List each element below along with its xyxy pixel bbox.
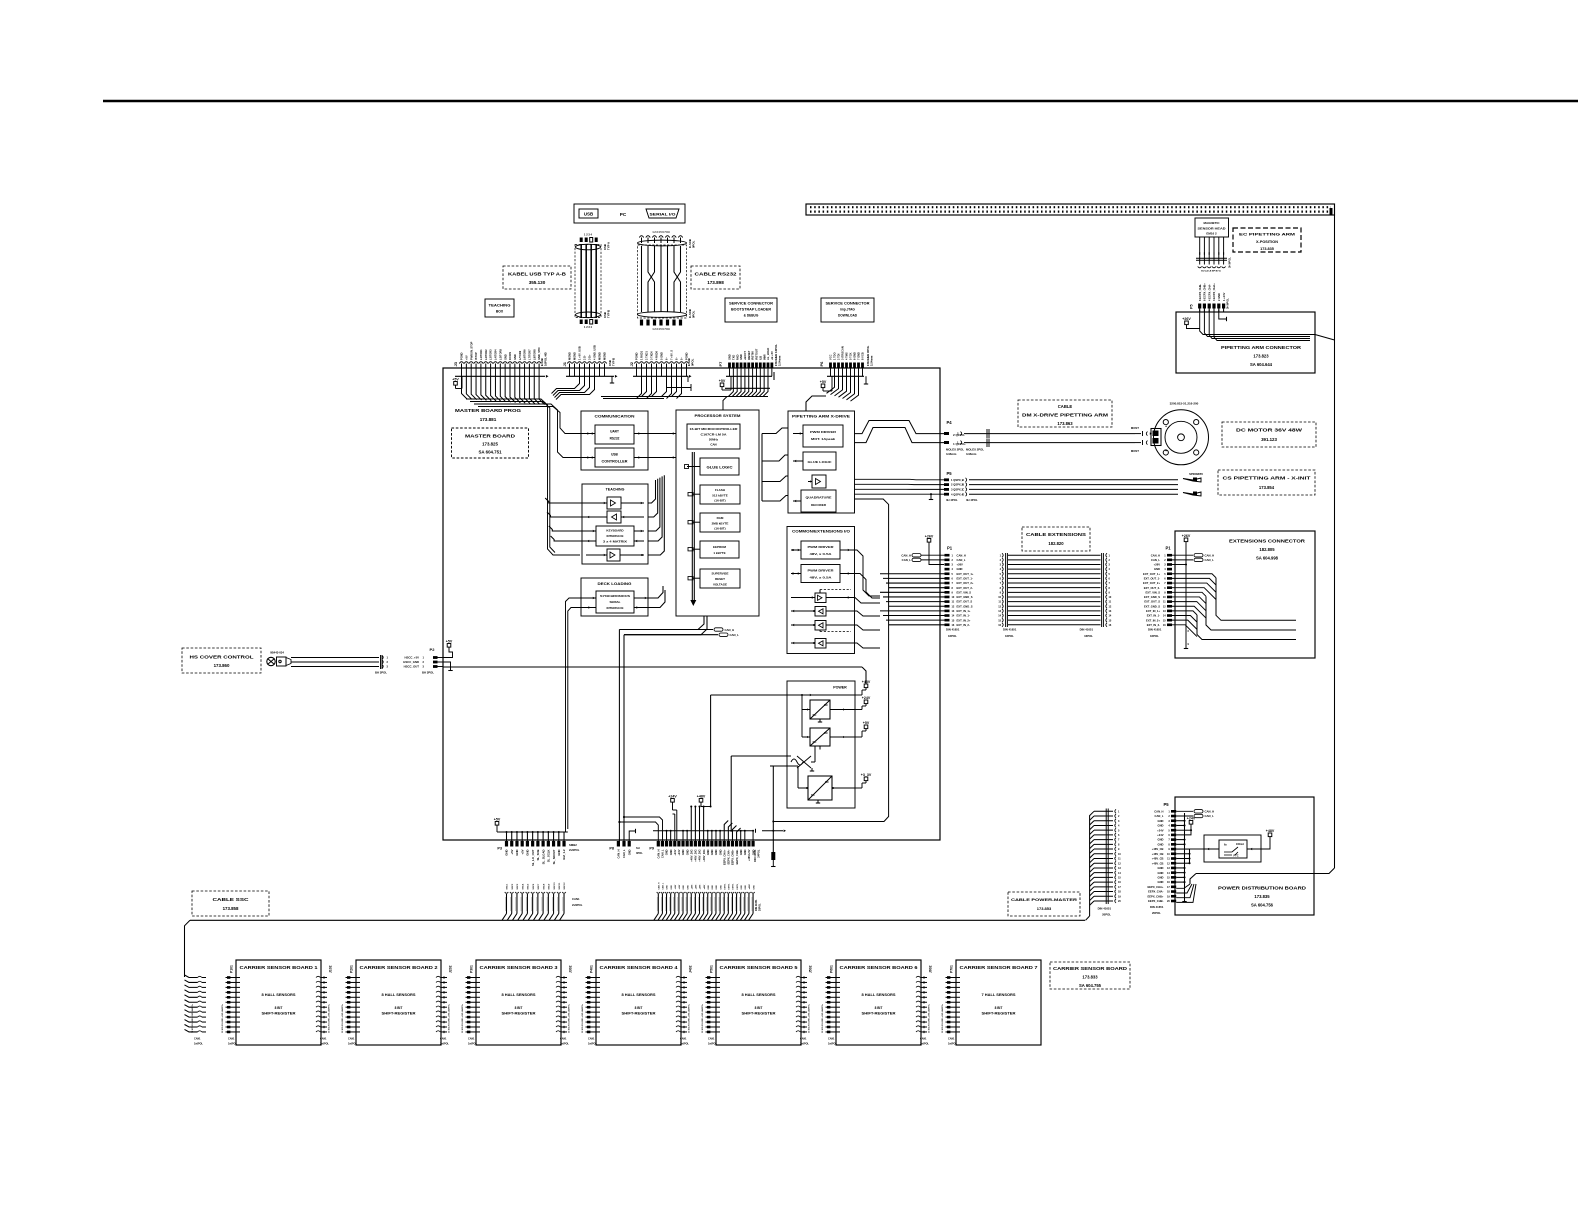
svg-text:3H 4POL: 3H 4POL [946, 498, 958, 502]
label CABLE DM X-DRIVE PIPETTING ARM 173.863 [1018, 400, 1112, 427]
svg-text:EEPX_CHA-: EEPX_CHA- [1148, 890, 1163, 894]
svg-text:P101: P101 [230, 965, 234, 973]
svg-text:CARRIER SENSOR BOARD 4: CARRIER SENSOR BOARD 4 [600, 965, 679, 970]
svg-text:7 +5V_S: 7 +5V_S [670, 350, 674, 360]
svg-text:2x6POL: 2x6POL [920, 1043, 929, 1046]
svg-text:GND: GND [1158, 871, 1164, 875]
block COMMON/EXTENSIONS I/O [787, 527, 855, 654]
teaching buffer 1 [607, 497, 621, 509]
svg-text:8 BIT: 8 BIT [995, 1006, 1003, 1010]
svg-text:+48V_CB: +48V_CB [1152, 857, 1164, 861]
svg-text:16POL-HD: 16POL-HD [544, 352, 548, 366]
svg-text:DOWNLOAD: DOWNLOAD [838, 314, 858, 318]
svg-text:GND: GND [706, 849, 710, 855]
svg-text:GND: GND [728, 354, 732, 360]
svg-text:BH 3POL: BH 3POL [422, 671, 434, 675]
svg-text:DECODER: DECODER [811, 503, 827, 507]
svg-text:EEPX_CHA+: EEPX_CHA+ [722, 849, 726, 865]
svg-text:SSC8: SSC8 [543, 883, 545, 889]
svg-text:2MB kBYTE: 2MB kBYTE [712, 522, 729, 526]
svg-text:DC: DC [824, 731, 828, 735]
svg-text:J402: J402 [689, 965, 693, 973]
svg-text:1 +24V: 1 +24V [1222, 292, 1226, 301]
wire extensions P1 pin3 to +26V [1172, 564, 1186, 566]
svg-text:100mA: 100mA [1236, 843, 1244, 846]
svg-text:EXT_VIN_S: EXT_VIN_S [1146, 590, 1161, 594]
power input wire top [770, 694, 802, 696]
svg-text:3H 6POL: 3H 6POL [1228, 257, 1232, 268]
ground at extensions P1 [1184, 648, 1188, 650]
svg-text:Ref_1.2: Ref_1.2 [562, 849, 566, 859]
wire HSCC bus inside board [443, 666, 862, 668]
cable power-master 20-core [1105, 809, 1107, 905]
svg-text:EEPX_: EEPX_ [733, 882, 735, 889]
stub CAN_L at extensions P1 [1172, 559, 1193, 561]
block TEACHING [582, 484, 648, 564]
svg-text:+5V: +5V [719, 379, 726, 383]
svg-text:CAN_L: CAN_L [902, 558, 912, 562]
svg-text:USB: USB [611, 453, 618, 457]
wire J3 bus [455, 375, 545, 377]
svg-text:CAN_H: CAN_H [657, 849, 661, 858]
ground at P8 [629, 831, 635, 841]
svg-text:12 SCLKO-GND-+5V2-LAMP2+: 12 SCLKO-GND-+5V2-LAMP2+ [701, 1003, 704, 1033]
svg-text:INTERFACE: INTERFACE [606, 606, 623, 610]
svg-text:173.858: 173.858 [223, 906, 239, 911]
svg-text:CAN_H: CAN_H [617, 849, 621, 858]
svg-text:SHIFT-REGISTER: SHIFT-REGISTER [982, 1012, 1017, 1016]
svg-text:GND: GND [1158, 838, 1164, 842]
label KABEL USB TYP A-B 355.130 [503, 266, 571, 289]
label HS COVER CONTROL 173.860 [182, 648, 261, 673]
svg-text:12 SCLKO-GND-+5V2-LAMP2+: 12 SCLKO-GND-+5V2-LAMP2+ [191, 1003, 194, 1033]
svg-text:2x6POL: 2x6POL [569, 848, 580, 852]
top border rule [103, 100, 1578, 103]
svg-text:2x6POL: 2x6POL [560, 1043, 569, 1046]
block COMMUNICATION [581, 411, 648, 470]
svg-text:RESET: RESET [715, 577, 725, 581]
svg-text:2 TDI: 2 TDI [837, 353, 841, 360]
svg-text:+24V: +24V [1157, 828, 1164, 832]
svg-text:VOLTAGE: VOLTAGE [713, 583, 727, 587]
svg-text:GND: GND [708, 885, 710, 890]
svg-text:DC MOTOR 36V 48W: DC MOTOR 36V 48W [1236, 428, 1303, 433]
svg-text:GND: GND [685, 849, 689, 855]
svg-text:12 SCLKO-GND-+5V2-LAMP2+: 12 SCLKO-GND-+5V2-LAMP2+ [221, 1003, 224, 1033]
cable RS232 bundle [638, 240, 687, 246]
svg-text:+48V_CB: +48V_CB [1152, 852, 1164, 856]
svg-text:2x6POL: 2x6POL [708, 1043, 717, 1046]
cable QSPX 4-core [966, 478, 967, 482]
svg-text:GND: GND [513, 354, 517, 360]
svg-text:1 2 3 4 5 6 7 8 9: 1 2 3 4 5 6 7 8 9 [652, 328, 670, 331]
label EC PIPETTING ARM X-POSITION 173.835 [1233, 228, 1301, 252]
svg-text:+26V: +26V [1182, 534, 1191, 538]
svg-text:EXT_IN_2-: EXT_IN_2- [957, 623, 970, 627]
svg-text:CAN1: CAN1 [194, 1038, 201, 1041]
svg-text:L/TOR9: L/TOR9 [518, 350, 522, 360]
svg-text:173.833: 173.833 [1082, 975, 1098, 980]
svg-text:SERIAL: SERIAL [609, 600, 620, 604]
block PWM DRIVER (x-drive) [803, 425, 843, 447]
svg-text:CABLE POWER-MASTER: CABLE POWER-MASTER [1011, 897, 1077, 902]
svg-text:3 TXD0: 3 TXD0 [650, 351, 654, 360]
wire J2 bus [633, 375, 688, 377]
svg-text:GND: GND [712, 885, 714, 890]
svg-text:EEPX_CHB+: EEPX_CHB+ [1147, 894, 1163, 898]
svg-text:GND: GND [505, 850, 509, 856]
svg-text:+26V: +26V [925, 534, 934, 538]
wires x-drive left elbows [762, 428, 788, 434]
svg-text:CAN1: CAN1 [800, 1038, 807, 1041]
svg-text:+48V_CB: +48V_CB [1152, 847, 1164, 851]
block PROCESSOR SYSTEM [676, 410, 759, 616]
master board outline [443, 368, 940, 840]
wire channel J3 to teaching [466, 399, 580, 555]
svg-text:2x6POL: 2x6POL [228, 1043, 237, 1046]
wire bundle P7 down [728, 376, 733, 396]
svg-text:GND: GND [667, 885, 669, 890]
ground at P5 x-init [930, 494, 932, 499]
svg-text:+26V: +26V [957, 563, 964, 567]
svg-text:RS232: RS232 [610, 437, 620, 441]
svg-text:GND: GND [710, 849, 714, 855]
svg-text:CAN1: CAN1 [228, 1038, 235, 1041]
svg-text:+48V_DIG: +48V_DIG [694, 850, 698, 862]
svg-text:SHIFT-REGISTER: SHIFT-REGISTER [382, 1012, 417, 1016]
svg-text:P401: P401 [590, 965, 594, 973]
fuse box PTC [1204, 835, 1261, 862]
svg-text:+48V_DIG: +48V_DIG [689, 850, 693, 862]
svg-text:SSC4: SSC4 [521, 883, 524, 889]
wire bundle J1 to communication [552, 376, 580, 393]
svg-text:EXT_IN_1+: EXT_IN_1+ [1146, 609, 1160, 613]
wire HS cover 3-core [291, 657, 379, 659]
svg-text:1 TDO: 1 TDO [833, 352, 837, 360]
wire P9 gnd bus [653, 830, 754, 832]
svg-text:SL_SDOUT: SL_SDOUT [552, 849, 556, 864]
svg-text:P1: P1 [1165, 546, 1171, 551]
svg-text:3200.815-51.216-200: 3200.815-51.216-200 [1170, 402, 1199, 406]
svg-text:GND: GND [716, 885, 718, 890]
svg-text:9 -: 9 - [680, 357, 684, 360]
svg-text:PWM DRIVER: PWM DRIVER [808, 569, 835, 573]
svg-text:MOT. 1Apeak: MOT. 1Apeak [811, 437, 836, 441]
svg-text:2x6POL: 2x6POL [948, 1043, 957, 1046]
svg-text:48V, x 0.5A: 48V, x 0.5A [810, 576, 832, 580]
wires teaching left [545, 498, 586, 503]
block DECK LOADING [581, 578, 648, 616]
svg-text:GND: GND [665, 849, 669, 855]
box MAGNETIC SENSOR HEAD EM16 2 [1195, 218, 1229, 237]
label CABLE EXTENSIONS 182.820 [1022, 527, 1090, 551]
wire riser 3 to power block [772, 766, 774, 852]
svg-text:P701: P701 [950, 965, 954, 973]
svg-text:EXT_OUT_2-: EXT_OUT_2- [957, 586, 973, 590]
cable power-master spine [1089, 815, 1091, 916]
svg-text:GND: GND [743, 849, 747, 855]
svg-text:EXT_OUT_1-: EXT_OUT_1- [1144, 577, 1160, 581]
svg-text:EXT_OUT_2-: EXT_OUT_2- [1144, 586, 1160, 590]
svg-text:3.96mm: 3.96mm [966, 452, 977, 456]
svg-text:2x6POL: 2x6POL [588, 1043, 597, 1046]
svg-text:3 ECPX_CHA+: 3 ECPX_CHA+ [1212, 283, 1216, 301]
svg-text:SA 604.751: SA 604.751 [478, 450, 502, 455]
svg-text:3POL: 3POL [636, 851, 643, 855]
label CARRIER SENSOR BOARD 173.833 SA 604.755 [1050, 962, 1130, 989]
svg-text:CAN_L: CAN_L [1155, 814, 1164, 818]
svg-text:+5V: +5V [510, 849, 514, 854]
svg-text:P601: P601 [830, 965, 834, 973]
svg-text:6 GND: 6 GND [853, 352, 857, 360]
board CARRIER SENSOR BOARD 5 [716, 960, 801, 1045]
svg-text:L1/TOR1: L1/TOR1 [479, 349, 483, 360]
svg-text:+24V: +24V [862, 696, 871, 700]
svg-text:P501: P501 [710, 965, 714, 973]
svg-text:/NMI: /NMI [762, 354, 766, 360]
svg-text:SENSOR HEAD: SENSOR HEAD [1198, 227, 1227, 231]
svg-text:/RSTIN: /RSTIN [751, 351, 755, 360]
svg-text:GND: GND [1158, 819, 1164, 823]
svg-text:L6/TOR6: L6/TOR6 [523, 349, 527, 360]
svg-text:SSC7: SSC7 [538, 883, 540, 889]
svg-text:KABEL USB TYP A-B: KABEL USB TYP A-B [508, 272, 567, 277]
svg-text:GND: GND [1158, 842, 1164, 846]
svg-text:CARRIER SENSOR BOARD: CARRIER SENSOR BOARD [1053, 966, 1127, 971]
svg-text:CAN1: CAN1 [440, 1038, 447, 1041]
svg-text:DIN 41651: DIN 41651 [753, 849, 757, 862]
svg-text:EXT_IN_1+: EXT_IN_1+ [957, 609, 971, 613]
svg-text:EXT_OUT_2+: EXT_OUT_2+ [1143, 581, 1160, 585]
svg-text:8 -: 8 - [675, 357, 679, 360]
svg-text:UART: UART [610, 430, 619, 434]
svg-text:BOX: BOX [496, 310, 504, 314]
dcdc converter 2 [810, 728, 830, 746]
svg-text:512 kBYTE: 512 kBYTE [712, 494, 728, 498]
svg-text:24POL: 24POL [757, 849, 761, 858]
ground at P2 [443, 662, 451, 670]
svg-text:2 GND: 2 GND [1217, 293, 1221, 301]
svg-text:2x6POL: 2x6POL [468, 1043, 477, 1046]
svg-text:TXD: TXD [731, 355, 735, 360]
svg-text:MAGNETIC: MAGNETIC [1204, 221, 1221, 225]
svg-text:POWER DISTRIBUTION BOARD: POWER DISTRIBUTION BOARD [1218, 886, 1306, 891]
svg-text:C167CR-LM 5A: C167CR-LM 5A [701, 433, 728, 437]
svg-text:P2: P2 [430, 647, 436, 652]
svg-text:+3_3V: +3_3V [861, 773, 872, 777]
svg-text:12 SCLKO-GND-+5V2-LAMP2+: 12 SCLKO-GND-+5V2-LAMP2+ [461, 1003, 464, 1033]
motor connector block [1151, 429, 1161, 446]
svg-text:8 BIT: 8 BIT [755, 1006, 763, 1010]
svg-text:GND: GND [718, 849, 722, 855]
svg-text:DC: DC [811, 793, 815, 797]
svg-text:+24V: +24V [1187, 816, 1196, 820]
svg-text:J202: J202 [449, 965, 453, 973]
svg-text:173.835: 173.835 [1254, 894, 1270, 899]
svg-text:MASTER BOARD: MASTER BOARD [465, 434, 515, 439]
svg-text:12 SCLKO-GND-+5V2-LAMP2+: 12 SCLKO-GND-+5V2-LAMP2+ [448, 1003, 451, 1033]
svg-text:2x6POL: 2x6POL [348, 1043, 357, 1046]
block PWM DRIVER A [801, 541, 840, 559]
svg-text:+5V: +5V [494, 817, 501, 821]
svg-text:EEPX_: EEPX_ [724, 882, 726, 889]
svg-text:12 SCLKO-GND-+5V2-LAMP2+: 12 SCLKO-GND-+5V2-LAMP2+ [341, 1003, 344, 1033]
svg-text:P9: P9 [649, 847, 654, 851]
svg-text:L3/TOR3: L3/TOR3 [489, 349, 493, 360]
bus SSC bottom [190, 919, 1085, 921]
svg-text:2x6POL: 2x6POL [440, 1043, 449, 1046]
svg-text:DC: DC [825, 780, 829, 784]
terminal strip (dotted) [806, 204, 1335, 215]
connector stub CAN_H [714, 628, 723, 631]
svg-text:EXT_OUT_2+: EXT_OUT_2+ [957, 581, 974, 585]
svg-text:EXT_OUT_S: EXT_OUT_S [1144, 600, 1160, 604]
svg-text:DIN 41651: DIN 41651 [1080, 628, 1094, 632]
svg-text:EXTENSIONS CONNECTOR: EXTENSIONS CONNECTOR [1229, 539, 1305, 544]
svg-text:+48V_: +48V_ [695, 883, 698, 890]
svg-text:CAN_H: CAN_H [1154, 809, 1163, 813]
svg-text:12 SCLKO-GND-+5V2-LAMP2+: 12 SCLKO-GND-+5V2-LAMP2+ [821, 1003, 824, 1033]
svg-text:GND: GND [741, 885, 743, 890]
svg-text:DIN 41651: DIN 41651 [1003, 628, 1017, 632]
svg-text:CAN_L: CAN_L [622, 849, 626, 858]
wires UART arrows [585, 433, 595, 435]
svg-text:CS PIPETTING ARM - X-INIT: CS PIPETTING ARM - X-INIT [1223, 476, 1312, 481]
teaching buffer 3 [607, 549, 620, 561]
svg-text:+48V_DIG: +48V_DIG [702, 850, 706, 862]
svg-text:DCDIS: DCDIS [508, 352, 512, 360]
svg-text:POWER: POWER [833, 686, 847, 690]
svg-text:CAN_H: CAN_H [658, 882, 661, 889]
svg-text:GND: GND [1158, 866, 1164, 870]
svg-text:SA 604.998: SA 604.998 [1256, 556, 1279, 561]
svg-text:PWRON_STOP: PWRON_STOP [469, 341, 473, 360]
block UART RS232 [595, 425, 634, 444]
svg-text:J302: J302 [569, 965, 573, 973]
svg-text:MASTER BOARD PROG: MASTER BOARD PROG [455, 408, 522, 413]
svg-text:12 SCLKO-GND-+5V2-LAMP2+: 12 SCLKO-GND-+5V2-LAMP2+ [568, 1003, 571, 1033]
svg-text:5 TCK: 5 TCK [849, 352, 853, 360]
svg-text:+24V: +24V [674, 884, 677, 889]
svg-text:+48V: +48V [1266, 829, 1275, 833]
svg-text:+26V: +26V [1154, 563, 1161, 567]
block FLASH [700, 485, 740, 504]
io driver symbol 3 [815, 621, 826, 631]
svg-text:2 TXD1: 2 TXD1 [645, 351, 649, 360]
svg-text:J502: J502 [809, 965, 813, 973]
svg-text:4 ECPX_CHA-: 4 ECPX_CHA- [1207, 284, 1211, 301]
svg-text:FLASH: FLASH [715, 488, 725, 492]
svg-text:SHIFT-REGISTER: SHIFT-REGISTER [862, 1012, 897, 1016]
driver symbol (x-drive) [812, 475, 826, 488]
svg-text:USB: USB [584, 212, 593, 217]
io driver symbol 2 [815, 607, 826, 617]
label CABLE POWER-MASTER 173.853 [1008, 892, 1080, 916]
svg-text:EEPX_: EEPX_ [737, 882, 739, 889]
junction arrow right of P9 [762, 830, 783, 832]
io driver symbol 1 [815, 593, 826, 603]
svg-text:CAN1: CAN1 [948, 1038, 955, 1041]
label MASTER BOARD 173.825 SA 604.751 [452, 428, 529, 458]
svg-text:173.898: 173.898 [707, 280, 724, 285]
svg-text:GND: GND [739, 849, 743, 855]
svg-text:MGND: MGND [603, 352, 607, 360]
svg-text:7 GND: 7 GND [857, 352, 861, 360]
svg-text:P301: P301 [470, 965, 474, 973]
svg-text:3H 6POL: 3H 6POL [1226, 298, 1230, 309]
teaching buffer 2 [607, 511, 621, 523]
svg-text:GND: GND [1158, 880, 1164, 884]
wire J1 bus [566, 375, 614, 377]
svg-text:DECK LOADING: DECK LOADING [598, 582, 632, 586]
board CARRIER SENSOR BOARD 1 [236, 960, 321, 1045]
svg-text:SHIFT-REGISTER: SHIFT-REGISTER [742, 1012, 777, 1016]
svg-text:GND: GND [957, 567, 963, 571]
svg-text:CAN_L: CAN_L [730, 633, 740, 637]
svg-text:+24V: +24V [678, 884, 681, 889]
ground stub J2 [687, 376, 689, 382]
svg-text:L8/TOR8: L8/TOR8 [532, 349, 536, 360]
svg-text:EXT_OUT_S: EXT_OUT_S [957, 600, 973, 604]
svg-text:2 QCPX-: 2 QCPX- [953, 433, 965, 437]
svg-text:173.835: 173.835 [1260, 247, 1274, 251]
svg-text:GND: GND [1158, 824, 1164, 828]
svg-text:355.130: 355.130 [529, 280, 546, 285]
svg-text:+24V: +24V [1157, 833, 1164, 837]
wire P3 riser bus [499, 831, 568, 833]
svg-text:SL_LO_OUT: SL_LO_OUT [531, 849, 535, 866]
svg-text:TYP B: TYP B [612, 358, 616, 366]
svg-text:173.823: 173.823 [1253, 354, 1269, 359]
svg-text:+48V_DIG: +48V_DIG [698, 850, 702, 862]
svg-text:12 SCLKO-GND-+5V2-LAMP2+: 12 SCLKO-GND-+5V2-LAMP2+ [928, 1003, 931, 1033]
svg-text:SHIFT-REGISTER: SHIFT-REGISTER [502, 1012, 537, 1016]
svg-text:P5: P5 [1190, 304, 1194, 309]
svg-text:TYP A: TYP A [607, 242, 611, 250]
svg-text:CABLE RS232: CABLE RS232 [695, 272, 738, 277]
svg-text:4 GND_USB: 4 GND_USB [593, 345, 597, 360]
svg-text:SSC5: SSC5 [528, 883, 530, 889]
svg-text:16-BIT MICROCONTROLLER: 16-BIT MICROCONTROLLER [690, 427, 739, 431]
svg-text:GND: GND [681, 849, 685, 855]
wire CAN from processor [619, 616, 704, 630]
svg-text:CAN1: CAN1 [572, 897, 580, 901]
wire bundle common-io to P1 [851, 550, 880, 596]
wire CAN verticals to P8 [618, 630, 620, 845]
svg-text:L4/TOR4: L4/TOR4 [494, 349, 498, 360]
svg-text:CARRIER SENSOR BOARD 2: CARRIER SENSOR BOARD 2 [360, 965, 439, 970]
svg-text:KEYBOARD: KEYBOARD [606, 529, 624, 533]
svg-text:J602: J602 [929, 965, 933, 973]
wire x-drive to P5 [855, 478, 945, 481]
svg-text:SA 604.644: SA 604.644 [1250, 362, 1273, 367]
block KEYBOARD INTERFACE 3x4 MATRIX [596, 526, 634, 546]
label CABLE RS232 173.898 [691, 266, 740, 289]
svg-text:GND: GND [526, 850, 530, 856]
box PC with USB and SERIAL I/O ports [574, 204, 685, 223]
wire bundle J3 to teaching/comm [462, 376, 468, 399]
box SERVICE CONNECTOR BOOTSTRAP LOADER & DEBUG [725, 298, 777, 322]
svg-text:EEPX_: EEPX_ [729, 882, 731, 889]
wires EEPX from rail [1176, 884, 1190, 888]
svg-text:SSC10: SSC10 [554, 882, 556, 890]
stub CAN_L at power distribution [1176, 815, 1193, 817]
svg-text:+5V: +5V [520, 849, 524, 854]
svg-text:COMMUNICATION: COMMUNICATION [595, 415, 636, 419]
svg-text:16POL: 16POL [948, 634, 957, 638]
svg-text:12 SCLKO-GND-+5V2-LAMP2+: 12 SCLKO-GND-+5V2-LAMP2+ [808, 1003, 811, 1033]
svg-text:/RESET: /RESET [747, 350, 751, 360]
